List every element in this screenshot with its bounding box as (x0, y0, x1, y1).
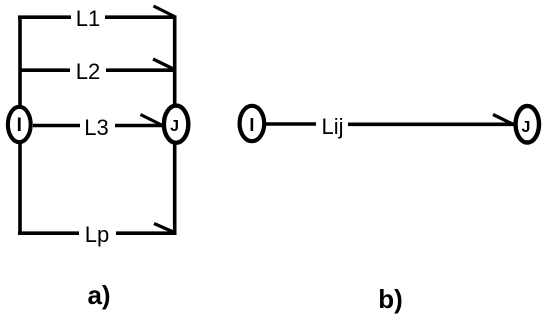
arrowhead of L2 (153, 59, 175, 70)
wire: edge Lij left segment (265, 122, 316, 126)
arrowhead of L1 (154, 6, 175, 17)
node J of diagram a (164, 106, 188, 143)
wire: edge L3 right segment (115, 124, 162, 128)
wire: right vertical bus of diagram a (173, 16, 177, 235)
wire: edge L1 left segment (18, 15, 71, 19)
node I of diagram b (240, 106, 265, 141)
wire: edge L1 right segment (105, 15, 177, 19)
svg-text:a): a) (87, 280, 110, 310)
svg-text:Lij: Lij (321, 114, 343, 139)
arrowhead of Lp (154, 224, 175, 233)
wire: edge L3 left segment (33, 124, 80, 128)
wire: edge Lp left segment (18, 231, 79, 235)
wire: left vertical bus of diagram a (18, 16, 22, 235)
wire: edge L2 left segment (20, 68, 70, 72)
svg-text:J: J (170, 118, 179, 135)
svg-text:Lp: Lp (85, 222, 109, 247)
svg-text:L1: L1 (76, 6, 100, 31)
arrowhead of Lij (493, 115, 513, 125)
node I of diagram a (8, 107, 31, 142)
svg-text:J: J (522, 119, 531, 136)
svg-text:L2: L2 (76, 59, 100, 84)
node J of diagram b (516, 106, 539, 143)
wire: edge Lp right segment (116, 231, 177, 235)
svg-text:I: I (17, 115, 22, 136)
svg-text:L3: L3 (84, 115, 108, 140)
wire: edge Lij right segment (348, 123, 515, 127)
arrowhead of L3 (141, 115, 162, 126)
svg-text:b): b) (378, 284, 403, 314)
wire: edge L2 right segment (106, 68, 177, 72)
svg-text:I: I (249, 115, 254, 135)
